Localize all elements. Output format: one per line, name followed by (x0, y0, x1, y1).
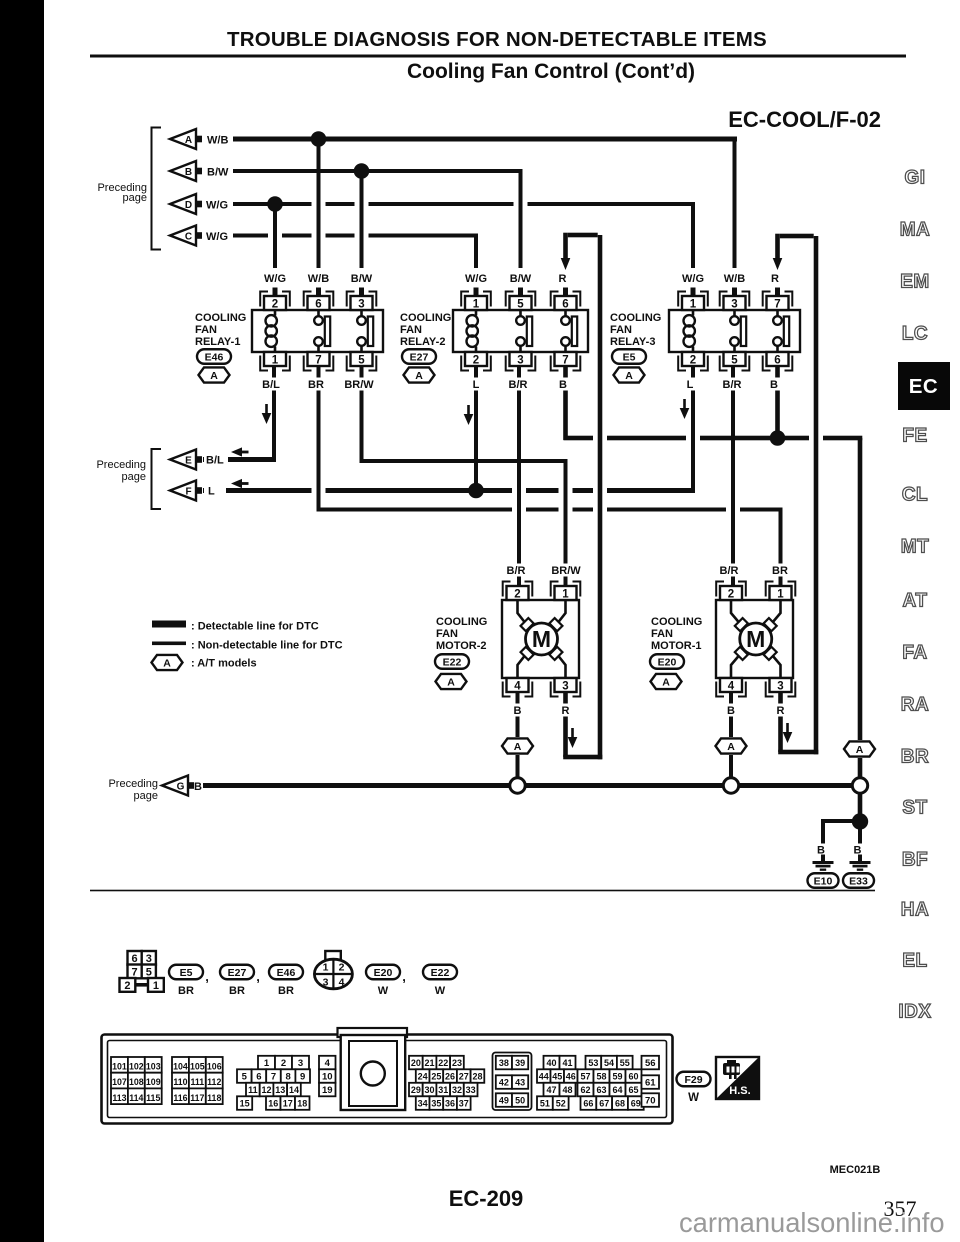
relay E27 switch contact at x=520.5 (519, 310, 522, 316)
svg-text:5: 5 (517, 298, 524, 310)
svg-text:HA: HA (901, 900, 929, 921)
down arrow on L wire at relay-3 (683, 399, 686, 409)
svg-text:48: 48 (562, 1085, 572, 1095)
wire B/W bus from connector B (233, 169, 523, 173)
svg-text:M: M (532, 626, 551, 652)
svg-text:MOTOR-1: MOTOR-1 (651, 640, 702, 652)
svg-text:2: 2 (473, 354, 479, 366)
svg-text:60: 60 (628, 1072, 638, 1082)
svg-text:5: 5 (731, 354, 738, 366)
svg-text:20: 20 (411, 1058, 421, 1068)
svg-text:H.S.: H.S. (729, 1085, 750, 1097)
svg-text:BR: BR (901, 747, 929, 768)
svg-text:109: 109 (146, 1077, 161, 1087)
svg-text:TROUBLE DIAGNOSIS FOR NON-DETE: TROUBLE DIAGNOSIS FOR NON-DETECTABLE ITE… (227, 28, 767, 51)
svg-text:MOTOR-2: MOTOR-2 (436, 640, 487, 652)
svg-text:30: 30 (425, 1085, 435, 1095)
svg-text:E46: E46 (277, 967, 296, 979)
svg-text:FA: FA (902, 643, 927, 664)
A/T hexagon at motor E20 (651, 674, 682, 689)
svg-text:A: A (727, 741, 735, 753)
svg-text:58: 58 (596, 1072, 606, 1082)
separator rule (90, 890, 875, 892)
connector oval E33 (843, 873, 874, 888)
svg-text:BR/W: BR/W (344, 379, 374, 391)
label L below relay-3 pin 2 (683, 378, 696, 391)
svg-text:EC-209: EC-209 (449, 1186, 524, 1211)
legend thin line sample (152, 642, 186, 646)
svg-text:15: 15 (240, 1099, 250, 1109)
motor E22 symbol M (526, 623, 558, 655)
wire B/R from relay-2 pin 3 to motor-2 pin 2 (517, 366, 521, 586)
svg-text:FAN: FAN (195, 324, 217, 336)
label L below relay-2 pin 2 (469, 378, 482, 391)
relay E46 switch contact at x=361.5 (360, 310, 363, 316)
svg-text:2: 2 (272, 298, 278, 310)
svg-text:GI: GI (904, 168, 925, 189)
junction dot B/W at relay-1 pin 3 drop (354, 163, 370, 179)
svg-text:A: A (447, 676, 455, 688)
junction dot L net (468, 483, 484, 499)
connector oval E27 (BR) (220, 965, 254, 980)
svg-text:A: A (210, 370, 218, 382)
A/T hexagon on motor-2 B wire (508, 737, 528, 755)
pin 3 (bottom) of relay E27 (510, 352, 532, 366)
svg-text:4: 4 (514, 680, 521, 692)
junction circle right B to bus G (852, 778, 867, 793)
svg-text:B: B (185, 167, 192, 178)
svg-text:22: 22 (438, 1058, 448, 1068)
svg-text:2: 2 (728, 588, 734, 600)
left arrow direction glyph on B/L wire (231, 447, 242, 456)
svg-text:MT: MT (901, 537, 929, 558)
junction dot W/G at relay-1 pin 2 drop (267, 196, 283, 212)
svg-text:16: 16 (268, 1099, 278, 1109)
svg-text:C: C (185, 231, 192, 242)
relay socket pin view (6/3,7/5,2-1) (128, 951, 142, 965)
svg-text:,: , (256, 969, 260, 984)
svg-text:W: W (688, 1092, 699, 1104)
wire W/G drop to relay-3 pin 1 (691, 204, 695, 268)
svg-text:24: 24 (418, 1072, 428, 1082)
svg-text:26: 26 (445, 1072, 455, 1082)
A/T hexagon on right B wire (850, 740, 870, 758)
label B/R above motor-2 pin 2 (502, 564, 530, 577)
wire B from relay-2 pin 7 to ground junction (563, 366, 568, 440)
svg-text:1: 1 (264, 1058, 270, 1069)
svg-text:102: 102 (129, 1062, 144, 1072)
pin 7 (top) of relay E5 (767, 296, 789, 310)
connector oval F29 (W) (677, 1072, 711, 1087)
svg-text:4: 4 (339, 977, 345, 989)
svg-text:R: R (771, 273, 779, 285)
svg-text:66: 66 (583, 1099, 593, 1109)
svg-text:Cooling Fan Control (Cont’d): Cooling Fan Control (Cont’d) (407, 60, 695, 83)
svg-text:E10: E10 (814, 875, 833, 887)
svg-text:W: W (378, 985, 389, 997)
wire B/W drop to relay-2 pin 5 (519, 171, 523, 268)
label B/W at relay-1 pin 3 (348, 272, 376, 285)
svg-text:116: 116 (173, 1093, 187, 1103)
svg-text:1: 1 (777, 588, 784, 600)
svg-text:page: page (134, 790, 158, 802)
svg-text:118: 118 (207, 1093, 221, 1103)
pin 7 (bottom) of relay E27 (555, 352, 577, 366)
svg-text:FAN: FAN (436, 628, 458, 640)
svg-text:4: 4 (728, 680, 735, 692)
svg-text:3: 3 (517, 354, 523, 366)
svg-text:LC: LC (902, 324, 928, 345)
svg-text:F29: F29 (684, 1074, 702, 1086)
svg-text:3: 3 (562, 680, 568, 692)
wire B vertical to A/T junction circle (right) (858, 438, 863, 821)
connector oval E46 (197, 349, 231, 364)
svg-text:19: 19 (322, 1085, 333, 1096)
svg-text:101: 101 (112, 1062, 127, 1072)
svg-text:28: 28 (472, 1072, 482, 1082)
label R below motor-1 pin 3 (774, 704, 787, 717)
svg-text:111: 111 (190, 1077, 204, 1087)
label B/R above motor-1 pin 2 (715, 564, 743, 577)
pin 1 (top) of motor E22 (555, 586, 577, 600)
svg-text:65: 65 (628, 1085, 638, 1095)
label B below relay-2 pin 7 (556, 378, 569, 391)
svg-text:E22: E22 (431, 967, 450, 979)
pin 4 (bottom) of motor E22 (507, 678, 529, 692)
svg-text:51: 51 (540, 1099, 550, 1109)
svg-text:B: B (770, 379, 778, 391)
svg-text:32: 32 (452, 1085, 462, 1095)
H.S. harness-side logo (716, 1057, 759, 1099)
svg-text:42: 42 (499, 1078, 509, 1088)
svg-text:: A/T models: : A/T models (191, 658, 257, 670)
svg-text:B: B (194, 781, 202, 793)
label BR/W above motor-2 pin 1 (549, 564, 584, 577)
connector oval E22 (435, 654, 469, 669)
motor E22 leads (518, 600, 566, 678)
arrowhead into relay-2 pin 6 (R) (561, 258, 571, 270)
relay E5 switch contact at x=777.5 (776, 310, 779, 316)
svg-text:W/G: W/G (264, 273, 286, 285)
svg-text:6: 6 (256, 1072, 261, 1083)
sidebar tab EC (active) (898, 362, 950, 410)
svg-text:39: 39 (515, 1058, 525, 1068)
svg-text:FAN: FAN (400, 324, 422, 336)
wire B/W drop to relay-1 pin 3 (360, 171, 364, 268)
down arrow on B/L wire (265, 404, 268, 414)
svg-text:117: 117 (190, 1093, 204, 1103)
label BR below relay-1 pin 7 (306, 378, 326, 391)
relay E5 coil (692, 310, 695, 316)
svg-text:67: 67 (599, 1099, 609, 1109)
svg-text:12: 12 (262, 1085, 272, 1095)
svg-text:44: 44 (539, 1072, 549, 1082)
svg-text:62: 62 (580, 1085, 590, 1095)
wire R stub into relay-3 pin 7 (775, 288, 780, 298)
svg-text:31: 31 (438, 1085, 448, 1095)
svg-text:COOLING: COOLING (436, 616, 487, 628)
svg-text:A: A (856, 744, 864, 756)
svg-text:108: 108 (129, 1077, 144, 1087)
svg-text:EL: EL (902, 951, 927, 972)
svg-text:1: 1 (153, 980, 159, 992)
pin 2 (top) of motor E20 (720, 586, 742, 600)
label B below motor-1 pin 4 (724, 704, 737, 717)
connector arrow G (162, 776, 188, 796)
pin 2 (top) of motor E22 (507, 586, 529, 600)
pin 1 (top) of relay E5 (682, 296, 704, 310)
label B/W at relay-2 pin 5 (507, 272, 535, 285)
label B/R below relay-3 pin 5 (718, 378, 746, 391)
wire BR from relay-1 pin 7 to motor-1 pin 1 (317, 366, 321, 512)
svg-text:L: L (208, 486, 215, 498)
svg-text:B/W: B/W (510, 273, 532, 285)
svg-text:BR: BR (308, 379, 324, 391)
svg-text:E20: E20 (658, 656, 677, 668)
svg-text:E: E (185, 455, 192, 466)
wire W/G bus from connector C (233, 234, 478, 238)
svg-text:,: , (205, 969, 209, 984)
svg-text:104: 104 (173, 1062, 188, 1072)
svg-text:E33: E33 (849, 875, 868, 887)
svg-text:3: 3 (731, 298, 737, 310)
svg-text:A: A (163, 657, 171, 669)
svg-text:49: 49 (499, 1096, 509, 1106)
svg-text:70: 70 (645, 1096, 656, 1107)
svg-text:4: 4 (325, 1058, 331, 1069)
svg-text:46: 46 (566, 1072, 576, 1082)
svg-text:6: 6 (315, 298, 321, 310)
svg-text:14: 14 (289, 1085, 299, 1095)
svg-text:3: 3 (298, 1058, 303, 1069)
svg-text:53: 53 (588, 1058, 598, 1068)
svg-text:64: 64 (612, 1085, 622, 1095)
motor E20 box (MOTOR-1) (716, 600, 793, 678)
label B below motor-2 pin 4 (511, 704, 524, 717)
svg-text:B/W: B/W (351, 273, 373, 285)
pin 1 (top) of motor E20 (770, 586, 792, 600)
A/T hexagon on motor-1 B wire (721, 737, 741, 755)
label B/L below relay-1 pin 1 (257, 378, 285, 391)
black page-edge bar (0, 0, 44, 1242)
wire W/B drop to relay-1 pin 6 (317, 139, 321, 268)
svg-text:5: 5 (358, 354, 365, 366)
wire BR/W from relay-1 pin 5 to motor-2 pin 1 (360, 366, 364, 463)
svg-text:61: 61 (645, 1078, 656, 1089)
svg-text:2: 2 (690, 354, 696, 366)
wire ground branch from junction dot (821, 819, 862, 823)
svg-text:A: A (185, 135, 192, 146)
svg-text:6: 6 (774, 354, 780, 366)
svg-text:MA: MA (900, 220, 931, 241)
connector oval E20 (W) (366, 965, 400, 980)
svg-text:BF: BF (902, 850, 928, 871)
ECM terminal grid 101-115 (111, 1057, 128, 1073)
svg-text:8: 8 (285, 1072, 290, 1083)
wire L bus from connector F (203, 488, 695, 493)
svg-text:41: 41 (562, 1058, 572, 1068)
svg-text:105: 105 (190, 1062, 205, 1072)
round connector view (1 2 / 3 4) (325, 951, 341, 960)
connector oval E22 (W) (423, 965, 457, 980)
svg-text:27: 27 (459, 1072, 469, 1082)
svg-text:B/R: B/R (509, 379, 528, 391)
wire R loop from motor-1 pin 3 to relay-3 pin 7 (778, 692, 783, 753)
junction circle motor-2 B to bus G (510, 778, 525, 793)
label R below motor-2 pin 3 (559, 704, 572, 717)
svg-text:3: 3 (358, 298, 364, 310)
pin 1 (bottom) of relay E46 (264, 352, 286, 366)
svg-text:RELAY-1: RELAY-1 (195, 336, 240, 348)
wire B stub from relay-3 pin 6 (775, 366, 780, 438)
svg-text:B/W: B/W (207, 167, 229, 179)
svg-text:57: 57 (580, 1072, 590, 1082)
svg-text:B: B (817, 845, 825, 857)
svg-text:7: 7 (315, 354, 321, 366)
svg-text:A: A (415, 370, 423, 382)
connector arrow A (170, 129, 196, 149)
svg-text:E20: E20 (374, 967, 393, 979)
svg-text:52: 52 (556, 1099, 566, 1109)
ECM terminal grid 20-37 (409, 1056, 423, 1070)
pin 3 (top) of relay E46 (351, 296, 373, 310)
down arrow on motor-1 R wire (786, 723, 789, 733)
ECM terminal column 56/61/70 (642, 1056, 660, 1070)
svg-text:L: L (473, 379, 480, 391)
svg-text:FE: FE (902, 426, 927, 447)
connector arrow F (170, 481, 196, 501)
svg-text:B: B (559, 379, 567, 391)
pin 5 (top) of relay E27 (510, 296, 532, 310)
relay E27 switch contact at x=565.5 (564, 310, 567, 316)
A/T hexagon at relay E5 (614, 367, 645, 382)
svg-text:2: 2 (124, 980, 130, 992)
svg-text:E22: E22 (443, 656, 462, 668)
wire B/R from relay-3 pin 5 to motor-1 pin 2 (731, 366, 735, 586)
svg-text:45: 45 (552, 1072, 562, 1082)
svg-text:115: 115 (146, 1093, 160, 1103)
svg-text:BR: BR (178, 985, 194, 997)
wire B bus from connector G (A/T models line) (203, 783, 862, 788)
svg-text:IDX: IDX (898, 1002, 931, 1023)
header rule (90, 55, 906, 58)
svg-text:33: 33 (466, 1085, 476, 1095)
svg-text:E46: E46 (205, 351, 224, 363)
pin 5 (bottom) of relay E5 (724, 352, 746, 366)
pin 2 (top) of relay E46 (264, 296, 286, 310)
pin 3 (bottom) of motor E20 (770, 678, 792, 692)
relay E46 switch contact at x=318.5 (317, 310, 320, 316)
svg-text:RA: RA (901, 695, 929, 716)
svg-text:103: 103 (146, 1062, 161, 1072)
svg-text:: Detectable line for DTC: : Detectable line for DTC (191, 621, 319, 633)
svg-text:W/G: W/G (206, 231, 228, 243)
svg-text:B/L: B/L (206, 455, 224, 467)
svg-text:9: 9 (300, 1072, 305, 1083)
svg-text:L: L (687, 379, 694, 391)
wire W/B bus from connector A (233, 137, 737, 142)
svg-text:EC: EC (909, 375, 938, 398)
svg-text:17: 17 (283, 1099, 293, 1109)
svg-text:AT: AT (903, 591, 928, 612)
svg-text:43: 43 (515, 1078, 525, 1088)
svg-text:COOLING: COOLING (651, 616, 702, 628)
svg-text:BR: BR (772, 565, 788, 577)
svg-text:50: 50 (515, 1096, 525, 1106)
wire W/B drop to relay-3 pin 3 (733, 139, 737, 268)
ECM terminal grid 104-118 (172, 1057, 189, 1073)
svg-text:3: 3 (146, 953, 152, 965)
connector arrow E (170, 450, 196, 470)
label B at right ground lead (854, 844, 866, 855)
label BR/W below relay-1 pin 5 (342, 378, 377, 391)
svg-text:36: 36 (445, 1099, 455, 1109)
svg-text:23: 23 (452, 1058, 462, 1068)
svg-text:56: 56 (645, 1058, 656, 1069)
svg-text:W: W (435, 985, 446, 997)
svg-text:,: , (402, 969, 406, 984)
svg-text:A: A (625, 370, 633, 382)
svg-text:COOLING: COOLING (195, 312, 246, 324)
svg-text:11: 11 (248, 1085, 258, 1095)
wire L from relay-2 pin 2 down to L bus (474, 366, 478, 491)
svg-text:COOLING: COOLING (400, 312, 451, 324)
svg-text:B: B (727, 705, 735, 717)
svg-text:2: 2 (281, 1058, 286, 1069)
svg-text:2: 2 (339, 962, 345, 974)
svg-text:47: 47 (546, 1085, 556, 1095)
connector oval E5 (BR) (169, 965, 203, 980)
svg-text:B/R: B/R (723, 379, 742, 391)
svg-text:MEC021B: MEC021B (830, 1164, 881, 1176)
svg-text:RELAY-2: RELAY-2 (400, 336, 445, 348)
svg-text:2: 2 (514, 588, 520, 600)
svg-text:B/R: B/R (507, 565, 526, 577)
svg-text:CL: CL (902, 485, 928, 506)
svg-text:BR/W: BR/W (551, 565, 581, 577)
svg-text:E5: E5 (180, 967, 193, 979)
svg-text:G: G (177, 781, 185, 792)
wire W/G drop to relay-1 pin 2 (273, 204, 277, 268)
label W/G at relay-2 pin 1 (462, 272, 490, 285)
pin 3 (bottom) of motor E22 (555, 678, 577, 692)
svg-text:68: 68 (615, 1099, 625, 1109)
svg-text:29: 29 (411, 1085, 421, 1095)
label W/G at relay-1 pin 2 (261, 272, 289, 285)
pin 5 (bottom) of relay E46 (351, 352, 373, 366)
svg-text:54: 54 (604, 1058, 614, 1068)
motor E20 leads (731, 600, 781, 678)
relay E46 box (RELAY-1) (252, 310, 383, 352)
ECM connector outline (102, 1035, 673, 1124)
svg-text:38: 38 (499, 1058, 509, 1068)
ECM terminal block 38-50 (493, 1053, 532, 1111)
down arrow on L wire at relay-2 (467, 405, 470, 415)
svg-text:E27: E27 (410, 351, 429, 363)
pin 6 (top) of relay E46 (308, 296, 330, 310)
connector arrow B (170, 161, 196, 181)
svg-text:7: 7 (562, 354, 568, 366)
svg-text:5: 5 (242, 1072, 248, 1083)
svg-text:34: 34 (418, 1099, 428, 1109)
svg-text:1: 1 (562, 588, 569, 600)
svg-text:112: 112 (207, 1077, 221, 1087)
pin 2 (bottom) of relay E5 (682, 352, 704, 366)
down arrow on motor-2 R wire (571, 728, 574, 738)
svg-text:EC-COOL/F-02: EC-COOL/F-02 (728, 107, 881, 132)
relay E27 coil (475, 310, 478, 316)
svg-text:3: 3 (777, 680, 783, 692)
